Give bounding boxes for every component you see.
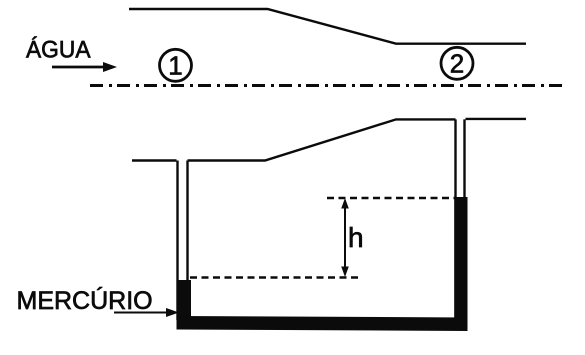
svg-text:2: 2 xyxy=(450,49,464,79)
svg-text:ÁGUA: ÁGUA xyxy=(26,37,91,64)
svg-text:1: 1 xyxy=(168,51,182,81)
svg-text:h: h xyxy=(348,222,364,253)
svg-text:MERCÚRIO: MERCÚRIO xyxy=(17,286,153,315)
